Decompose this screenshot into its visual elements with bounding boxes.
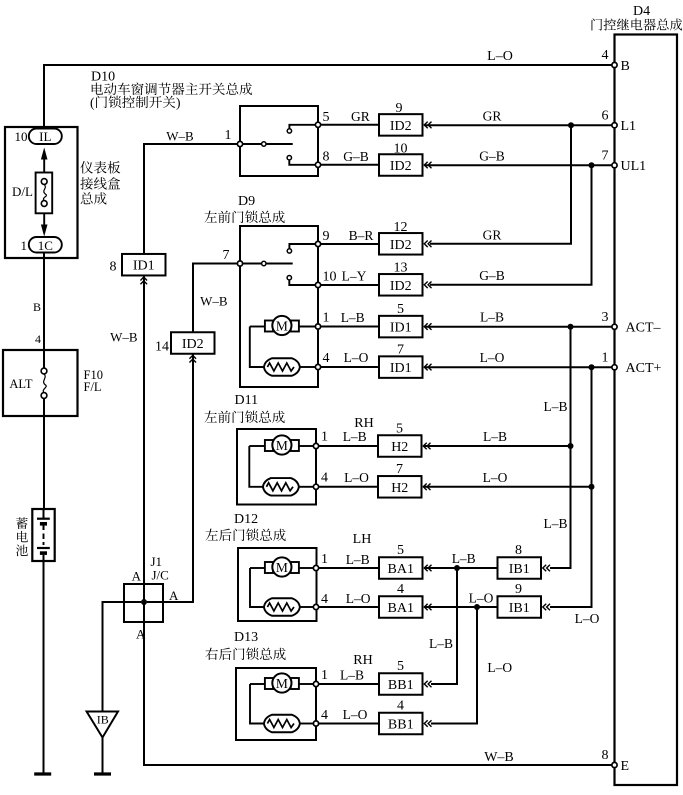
svg-text:4: 4 (321, 708, 328, 723)
connector ID2 pin 14 (155, 332, 215, 362)
svg-text:UL1: UL1 (621, 159, 647, 174)
D13 lock motor M (250, 673, 313, 692)
svg-text:L1: L1 (621, 119, 637, 134)
wire W-B: ID1(8) down through J/C to D4 terminal E (144, 276, 614, 766)
svg-text:ID2: ID2 (390, 159, 412, 174)
wire L-O bus: from ACT+ wire down to IB1(9) (550, 367, 592, 607)
svg-text:W–B: W–B (484, 750, 514, 765)
svg-text:M: M (276, 560, 288, 575)
wire L-O: D11 pin 4 to H2(7) to L-O bus (319, 486, 592, 488)
wire L-B: D11 pin 1 to H2(5) to L-B bus (319, 445, 571, 447)
svg-text:L–B: L–B (343, 429, 367, 444)
D11 motor-resistor link wire (249, 446, 263, 487)
svg-text:BB1: BB1 (388, 678, 414, 693)
svg-text:L–B: L–B (341, 310, 365, 325)
wire L-O: D13 pin 4 to BB1(4) (319, 723, 379, 725)
label L-B (341, 310, 365, 325)
D12 lock motor M (250, 557, 313, 576)
svg-text:L–B: L–B (340, 668, 364, 683)
junction dot L-B branch (568, 324, 574, 330)
svg-text:1: 1 (323, 311, 330, 326)
label D13 右后门锁总成 (205, 630, 285, 660)
svg-text:D10: D10 (91, 70, 115, 85)
svg-text:G–B: G–B (479, 149, 505, 164)
pin 9 of D9 (315, 229, 329, 247)
svg-text:L–O: L–O (346, 591, 371, 606)
connector oval IL pin 10 (15, 129, 62, 145)
svg-text:W–B: W–B (110, 330, 138, 345)
svg-text:5: 5 (397, 302, 404, 317)
svg-text:1: 1 (321, 668, 328, 683)
svg-text:L–O: L–O (480, 350, 505, 365)
wire W-B: D10 pin 1 to connector ID1(8) (144, 144, 237, 254)
label G-B (to ID2 13) (479, 268, 505, 283)
terminal 1 ACT+ of D4 (602, 351, 662, 377)
svg-text:8: 8 (515, 543, 522, 558)
arrow down toward 1C (41, 213, 48, 236)
svg-text:W–B: W–B (166, 129, 194, 144)
svg-text:7: 7 (223, 248, 230, 263)
label L-B (link) (429, 636, 453, 651)
front door lock assembly D9 box (240, 226, 318, 387)
svg-text:8: 8 (110, 260, 117, 275)
connector ID2 pin 12 (379, 220, 432, 255)
wire: ID2(14) down to junction J/C (147, 354, 193, 603)
svg-text:4: 4 (323, 351, 330, 366)
junction dot (L-O bus / D11) (589, 484, 595, 490)
label L-O (344, 470, 369, 485)
svg-text:7: 7 (397, 343, 404, 358)
svg-text:L–O: L–O (487, 660, 512, 675)
svg-text:G–B: G–B (479, 268, 505, 283)
svg-text:H2: H2 (391, 440, 408, 455)
wire L-O: D12 pin 4 to BA1(4) to IB1(9) (319, 606, 498, 608)
terminal 7 UL1 of D4 (602, 149, 647, 175)
svg-text:L–B: L–B (543, 399, 567, 414)
svg-text:1: 1 (321, 552, 328, 567)
svg-text:GR: GR (351, 109, 370, 124)
label L-O (343, 707, 368, 722)
label A (bottom) (136, 627, 146, 642)
svg-text:L–B: L–B (452, 551, 476, 566)
connector ID1 pin 7 (379, 343, 432, 378)
wire L-B link: D12 junction down to BB1(5) (431, 568, 457, 684)
svg-text:ALT: ALT (9, 377, 33, 391)
svg-text:4: 4 (397, 699, 404, 714)
svg-text:B–R: B–R (349, 228, 374, 243)
svg-text:J/C: J/C (152, 568, 169, 583)
svg-text:L–B: L–B (480, 310, 504, 325)
svg-text:G–B: G–B (343, 149, 369, 164)
svg-text:8: 8 (602, 748, 609, 763)
svg-text:A: A (136, 627, 146, 642)
front door lock assembly D11 box (237, 429, 316, 505)
D11 PTC resistor (263, 478, 314, 496)
svg-text:A: A (132, 569, 142, 584)
junction dot (L-B to D13) (454, 565, 460, 571)
label L-B (right) (483, 429, 507, 444)
pin 1 of D11 (313, 430, 328, 449)
label D11 左前门锁总成 (204, 393, 284, 423)
svg-text:D13: D13 (234, 630, 258, 645)
label G-B (right) (479, 149, 505, 164)
ground (battery) (34, 772, 51, 775)
svg-text:LH: LH (353, 532, 372, 547)
label L-B (middle) (452, 551, 476, 566)
label W-B (vertical run) (110, 330, 138, 345)
relay assembly D4 box (door control relay) (615, 35, 678, 786)
svg-text:5: 5 (396, 422, 403, 437)
label L-O (right) (483, 470, 508, 485)
label RH (D13) (353, 653, 372, 668)
svg-text:H2: H2 (391, 481, 408, 496)
label W-B (200, 294, 228, 309)
svg-text:8: 8 (323, 150, 330, 165)
pin 1 of D9 (315, 311, 329, 330)
terminal 3 ACT- of D4 (602, 310, 662, 336)
connector ID1 pin 5 (379, 302, 432, 337)
svg-text:GR: GR (483, 109, 502, 124)
fuse D/L (door lock circuit breaker) (12, 173, 52, 214)
connector ID2 pin 13 (379, 261, 432, 296)
connector BB1 pin 4 (379, 699, 432, 735)
svg-text:L–Y: L–Y (342, 269, 367, 284)
label B-R (349, 228, 374, 243)
svg-text:B: B (33, 300, 41, 314)
label D4 (633, 4, 650, 19)
svg-text:BA1: BA1 (388, 562, 414, 577)
svg-text:1: 1 (225, 128, 232, 143)
label A (top) (132, 569, 142, 584)
svg-text:ACT–: ACT– (626, 321, 662, 336)
label LH (D12) (353, 532, 372, 547)
svg-text:5: 5 (397, 543, 404, 558)
D13 PTC resistor (264, 715, 314, 733)
label L-B (right) (480, 310, 504, 325)
label L-O (right) (480, 350, 505, 365)
svg-text:IL: IL (39, 129, 51, 144)
pin 1 of D13 (313, 668, 328, 687)
connector BB1 pin 5 (379, 659, 432, 695)
svg-text:M: M (276, 318, 288, 333)
junction dot (L-O to D13) (474, 604, 480, 610)
svg-text:GR: GR (483, 228, 502, 243)
wire W-B: D9 pin 7 to connector ID2(14) (193, 264, 237, 333)
svg-text:4: 4 (397, 582, 404, 597)
svg-text:1C: 1C (38, 238, 53, 253)
wire: junction A to connector IB (103, 602, 142, 711)
svg-text:10: 10 (394, 141, 408, 156)
svg-text:B: B (621, 59, 630, 74)
label D12 左后门锁总成 (205, 512, 285, 541)
connector oval 1C pin 1 (21, 237, 62, 253)
svg-text:4: 4 (35, 332, 41, 346)
label RH (D11) (354, 416, 373, 431)
svg-text:13: 13 (394, 261, 408, 276)
svg-text:M: M (276, 438, 288, 453)
svg-text:L–O: L–O (344, 470, 369, 485)
label 门控继电器总成 (592, 18, 683, 30)
svg-text:9: 9 (396, 101, 403, 116)
svg-text:4: 4 (321, 592, 328, 607)
svg-text:ACT+: ACT+ (626, 361, 662, 376)
wire L-B: D13 pin 1 to BB1(5) (319, 683, 379, 685)
D11 lock motor M (249, 435, 313, 454)
svg-text:9: 9 (323, 229, 330, 244)
svg-text:1: 1 (321, 430, 328, 445)
svg-text:M: M (276, 676, 288, 691)
terminal 4 B of D4 (602, 48, 630, 74)
svg-text:(: ( (90, 95, 95, 110)
fuse element F10 (41, 368, 47, 398)
label L-O (middle) (469, 591, 494, 606)
svg-text:F/L: F/L (84, 380, 102, 394)
label L-B (343, 429, 367, 444)
svg-text:ID1: ID1 (390, 321, 412, 336)
pin 1 of D12 (313, 552, 328, 571)
label G-B (343, 149, 369, 164)
svg-text:L–B: L–B (483, 429, 507, 444)
svg-text:D12: D12 (234, 512, 258, 527)
label W-B (bottom run) (484, 750, 514, 765)
label L-O (bus lower) (575, 611, 600, 626)
D12 motor-resistor link wire (250, 568, 264, 607)
label L-B (340, 668, 364, 683)
label 仪表板接线盒总成 (80, 161, 120, 204)
D10 upper contact to pin 5 (287, 125, 315, 133)
wire GR: D10 pin 5 to ID2(9) to D4 terminal L1 (321, 124, 614, 126)
svg-text:D11: D11 (235, 393, 259, 408)
wire L-B bus: from ACT- wire down to IB1(8) (550, 327, 571, 568)
svg-text:14: 14 (155, 340, 169, 355)
svg-text:D9: D9 (238, 194, 255, 209)
junction node A dot (141, 599, 147, 605)
pin 4 of D11 (313, 471, 328, 490)
junction dot GR branch (568, 122, 574, 128)
wire: IB to ground (102, 738, 104, 774)
ground (IB) (94, 772, 111, 775)
label GR (right) (483, 109, 502, 124)
wire L-B: D12 pin 1 to BA1(5) to IB1(8) (319, 567, 498, 569)
pin 8 of D10 (315, 150, 329, 168)
wire G-B branch: from UL1 wire down to ID2(13) (430, 165, 592, 284)
D9 upper contact to pin 9 (287, 244, 315, 253)
pin 7 of D9 (223, 248, 243, 266)
svg-text:RH: RH (353, 653, 372, 668)
svg-text:4: 4 (321, 471, 328, 486)
D9 switch: pivot and arm from pin 7 (243, 261, 293, 265)
svg-text:4: 4 (602, 48, 609, 63)
wire B-R: D9 pin 9 to ID2(12) (321, 243, 379, 245)
pin 10 of D9 (315, 270, 336, 288)
connector ID2 pin 10 (379, 141, 432, 175)
battery 蓄电池 (32, 509, 54, 561)
svg-text:5: 5 (397, 659, 404, 674)
svg-text:L–O: L–O (344, 350, 369, 365)
svg-text:L–O: L–O (469, 591, 494, 606)
pin 4 of D9 (315, 351, 329, 370)
svg-text:L–O: L–O (575, 611, 600, 626)
pin 4 of D13 (313, 708, 328, 726)
wire L-B: D9 pin 1 to ID1(5) to D4 terminal ACT- (321, 326, 614, 328)
svg-text:12: 12 (394, 220, 408, 235)
svg-text:6: 6 (602, 109, 609, 124)
connector ID2 pin 9 (379, 101, 432, 136)
label L-B (346, 552, 370, 567)
svg-text:ID1: ID1 (390, 361, 412, 376)
label GR (351, 109, 370, 124)
label W-B (166, 129, 194, 144)
wire: fuse F10 to battery (43, 398, 45, 509)
svg-text:): ) (176, 95, 181, 110)
junction dot (L-B bus / D11) (568, 443, 574, 449)
svg-text:IB1: IB1 (509, 562, 530, 577)
junction dot L-O branch (589, 364, 595, 370)
connector BA1 pin 5 (379, 543, 432, 579)
svg-text:E: E (621, 759, 630, 774)
svg-text:1: 1 (21, 238, 28, 253)
label L-O (344, 350, 369, 365)
wire L-O: battery feed from instrument panel to D4 terminal B (44, 65, 614, 130)
svg-text:ID2: ID2 (182, 337, 204, 352)
wire GR branch: from L1 wire down to ID2(12) (430, 125, 571, 244)
connector IB (ground connector) (87, 712, 118, 738)
svg-text:L–O: L–O (343, 707, 368, 722)
terminal 6 L1 of D4 (602, 109, 637, 135)
connector BA1 pin 4 (379, 582, 432, 618)
pin 1 of D10 (225, 128, 243, 147)
wire L-Y: D9 pin 10 to ID2(13) (321, 284, 379, 286)
connector IB1 pin 8 (498, 543, 551, 579)
junction connector J1 J/C (124, 554, 169, 622)
connector H2 pin 5 (378, 422, 431, 457)
svg-text:L–O: L–O (483, 470, 508, 485)
arrow up toward IL (41, 148, 48, 173)
svg-text:W–B: W–B (200, 294, 228, 309)
label L-B (bus lower) (543, 516, 567, 531)
svg-text:9: 9 (515, 582, 522, 597)
connector ID1 pin 8 (110, 254, 166, 284)
svg-text:ID2: ID2 (390, 238, 412, 253)
svg-text:A: A (169, 588, 179, 603)
svg-text:10: 10 (15, 129, 28, 144)
svg-text:BA1: BA1 (388, 601, 414, 616)
label L-B (bus upper) (543, 399, 567, 414)
label D9 左前门锁总成 (204, 194, 284, 223)
connector H2 pin 7 (378, 462, 431, 498)
svg-text:3: 3 (602, 310, 609, 325)
svg-text:L–B: L–B (543, 516, 567, 531)
pin 4 of D12 (313, 592, 328, 610)
label A (right) (169, 588, 179, 603)
D13 motor-resistor link wire (250, 684, 264, 724)
D10 lower contact to pin 8 (287, 156, 315, 165)
svg-text:IB: IB (97, 713, 109, 727)
fusible link box F10 F/L (ALT) (3, 350, 103, 416)
svg-text:D/L: D/L (12, 184, 33, 199)
pin 5 of D10 (315, 110, 329, 127)
connector IB1 pin 9 (498, 582, 551, 618)
label L-O (346, 591, 371, 606)
label GR (to ID2 12) (483, 228, 502, 243)
svg-text:ID2: ID2 (390, 279, 412, 294)
rear door lock assembly D13 box (236, 668, 316, 740)
svg-text:7: 7 (396, 462, 403, 477)
wire B: 1C to fuse F10 (33, 253, 44, 369)
svg-text:D4: D4 (633, 4, 650, 19)
svg-text:L–O: L–O (487, 49, 513, 64)
wire L-O: D9 pin 4 to ID1(7) to D4 terminal ACT+ (321, 366, 614, 368)
D9 PTC resistor (264, 358, 316, 376)
wire G-B: D10 pin 8 to ID2(10) to D4 terminal UL1 (321, 164, 614, 167)
wire L-O link: D12 junction down to BB1(4) (431, 607, 477, 724)
svg-text:IB1: IB1 (509, 601, 530, 616)
D9 lock motor M (250, 316, 316, 335)
junction dot G-B branch (589, 162, 595, 168)
svg-text:L–B: L–B (429, 636, 453, 651)
label L-O (link) (487, 660, 512, 675)
svg-text:L–B: L–B (346, 552, 370, 567)
D10 switch: pivot and arm from pin 1 (243, 142, 293, 146)
power window master switch assembly D10 box (240, 106, 318, 176)
svg-text:ID2: ID2 (390, 119, 412, 134)
label 蓄电池 (16, 517, 28, 556)
D9 motor-resistor link wire (250, 327, 264, 368)
svg-text:BB1: BB1 (388, 718, 414, 733)
D9 lower contact to pin 10 (287, 276, 315, 286)
svg-text:10: 10 (323, 270, 337, 285)
svg-text:7: 7 (602, 149, 609, 164)
svg-text:ID1: ID1 (133, 259, 155, 274)
label D10 电动车窗调节器主开关总成 (门锁控制开关) (90, 70, 252, 111)
wire: battery to ground (43, 561, 45, 773)
label L-O (top wire) (487, 49, 513, 64)
instrument panel junction box 仪表板接线盒总成 (5, 127, 78, 258)
rear door lock assembly D12 box (238, 548, 317, 621)
terminal 8 E of D4 (602, 748, 630, 774)
label L-Y (342, 269, 367, 284)
svg-text:1: 1 (602, 351, 609, 366)
svg-text:5: 5 (323, 110, 330, 125)
D12 PTC resistor (264, 598, 314, 616)
